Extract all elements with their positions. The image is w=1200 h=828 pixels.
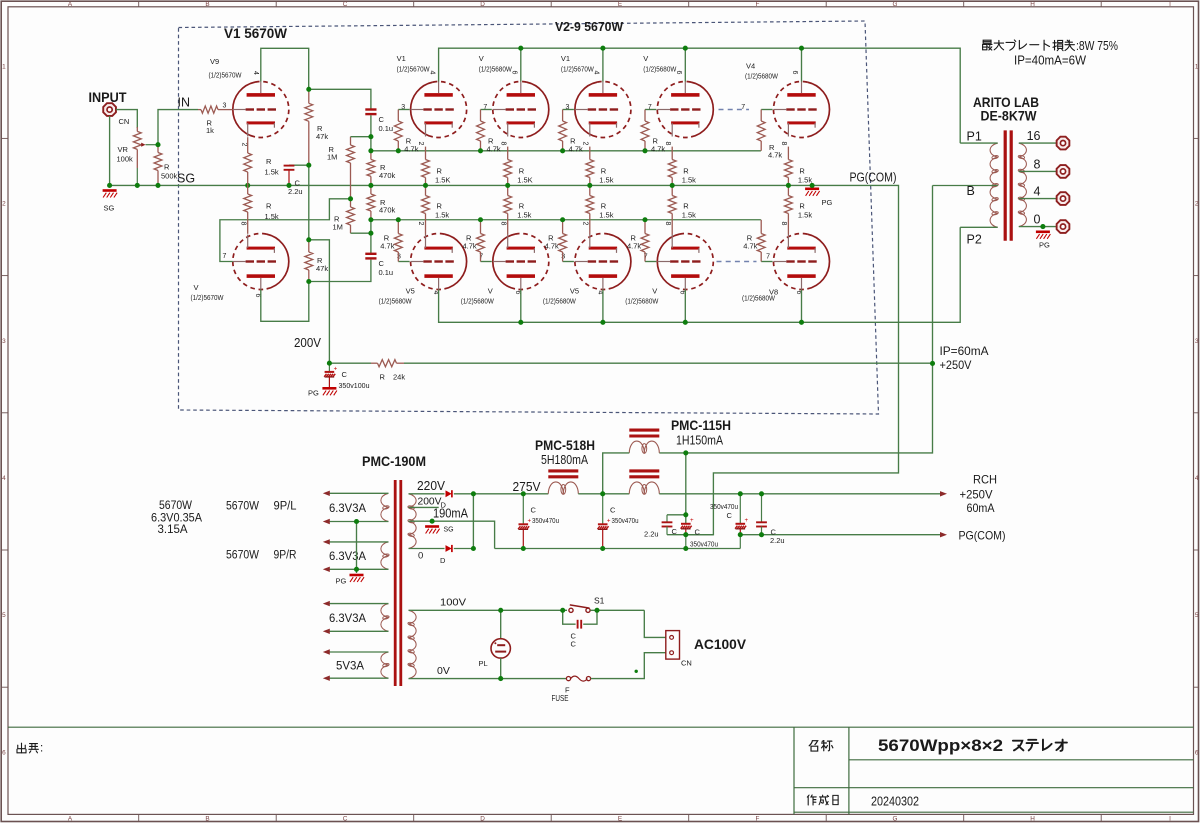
resistor R 1M upper (350, 137, 352, 145)
winding 6.3V3A #3 (381, 604, 389, 618)
svg-text:4.7k: 4.7k (627, 242, 641, 251)
svg-text:100k: 100k (117, 155, 134, 164)
wire PG(COM) RCH out (740, 534, 940, 536)
svg-text:4.7k: 4.7k (569, 145, 583, 154)
svg-text:V1: V1 (397, 54, 406, 63)
wire grid stub col5 low (761, 261, 772, 263)
svg-text:+250V: +250V (960, 488, 993, 502)
svg-text:47k: 47k (316, 264, 328, 273)
wire cap lower to plate node (309, 260, 371, 282)
tube V1 upper col1 (411, 82, 467, 138)
wire 200V feed (309, 240, 330, 363)
wire CN to SG ground (109, 116, 111, 185)
svg-text:IP=40mA=6W: IP=40mA=6W (1014, 54, 1086, 68)
terminal 8 (1057, 165, 1070, 178)
svg-text:SG: SG (104, 204, 115, 213)
transformer OPT primary winding (990, 143, 998, 157)
resistor R 1.5k cathode col5 low (787, 185, 789, 195)
wire rail to RCH (659, 493, 940, 495)
wire plate lead up x=685.3 (684, 48, 686, 81)
svg-text:1.5k: 1.5k (265, 212, 279, 221)
svg-text:(1/2)5680W: (1/2)5680W (479, 65, 513, 74)
svg-text:8: 8 (780, 222, 787, 226)
stray dot mains (635, 670, 638, 673)
svg-text:1.5k: 1.5k (682, 211, 696, 220)
svg-text:(1/2)5680W: (1/2)5680W (543, 297, 577, 306)
svg-text:4: 4 (593, 71, 600, 75)
svg-text:4.7k: 4.7k (743, 242, 757, 251)
svg-text:2: 2 (240, 143, 247, 147)
resistor R 1.5k cathode col2 low (507, 185, 509, 195)
ellipsis dashes lower row (717, 261, 757, 263)
svg-text:1: 1 (2, 63, 6, 70)
wire grid stub col1 up (398, 109, 409, 111)
title block label 作成日 (807, 795, 809, 797)
svg-text:5670W: 5670W (226, 550, 259, 562)
svg-text:B: B (205, 1, 209, 8)
svg-text:4: 4 (1195, 475, 1199, 482)
tube V9 lower half (1/2)5670W (233, 234, 289, 290)
wire CN to VR (116, 110, 137, 128)
svg-text:DE-8K7W: DE-8K7W (981, 108, 1038, 124)
wire grid stub col3 up (563, 109, 574, 111)
svg-text:R: R (266, 202, 272, 211)
resistor R 4.7k grid col4 low (644, 220, 646, 234)
svg-text:6: 6 (791, 71, 798, 75)
svg-text:1.5k: 1.5k (265, 168, 279, 177)
svg-text:0.1u: 0.1u (379, 124, 394, 133)
wire grid stub col2 low (481, 261, 492, 263)
svg-text:20240302: 20240302 (871, 795, 919, 809)
svg-text:350v470u: 350v470u (532, 518, 559, 525)
svg-text:2.2u: 2.2u (644, 530, 659, 539)
svg-text:V: V (488, 287, 493, 296)
svg-text:1.5k: 1.5k (435, 211, 449, 220)
svg-text:2: 2 (582, 222, 589, 226)
svg-text:+: + (690, 517, 694, 524)
wire plate lead up x=520.8 (520, 48, 522, 81)
svg-text:A: A (68, 816, 73, 823)
svg-text::8W 75%: :8W 75% (1076, 39, 1118, 53)
svg-text:D: D (480, 1, 485, 8)
resistor R 4.7k grid col2 low (480, 220, 482, 234)
svg-text:470k: 470k (379, 206, 396, 215)
ground PG heater (350, 574, 364, 577)
svg-text:I: I (1169, 816, 1171, 823)
winding 5V3A #4 (381, 652, 389, 665)
svg-text:2: 2 (417, 222, 424, 226)
svg-text:C: C (342, 370, 348, 379)
tube V8 lower col5 (774, 234, 830, 290)
svg-text:(1/2)5670W: (1/2)5670W (209, 71, 243, 80)
resistor R 470k upper (370, 151, 372, 160)
resistor R 1.5K cathode col3 up (589, 147, 591, 160)
arrow 6.3V3A top (323, 601, 330, 606)
svg-text:C: C (343, 816, 348, 823)
winding 6.3V3A #1 (381, 493, 389, 507)
wire V9 plate to rail (261, 48, 309, 89)
arrow 6.3V3A top (323, 491, 330, 496)
wire ground bus psu (495, 548, 741, 550)
wire CT tap (409, 521, 495, 548)
wire B+ rail (454, 493, 549, 495)
svg-text:B: B (967, 184, 975, 198)
svg-text:SG: SG (444, 527, 454, 534)
capacitor C 350v100u (328, 363, 330, 371)
svg-text:6: 6 (675, 71, 682, 75)
tube V lower col2 (493, 234, 549, 290)
choke PMC-518H (548, 469, 578, 472)
svg-text:1M: 1M (333, 223, 343, 232)
arrow 6.3V3A bottom (323, 519, 330, 524)
resistor R 4.7k grid col3 low (562, 220, 564, 234)
svg-text:4.7k: 4.7k (545, 242, 559, 251)
svg-text:8: 8 (664, 222, 671, 226)
switch S1 (569, 608, 573, 612)
resistor R 4.7k grid col1 low (397, 220, 399, 234)
svg-text:G: G (893, 816, 898, 823)
svg-text:R: R (601, 202, 607, 211)
wire plate lead down x=520.8 (520, 290, 522, 323)
svg-text:+: + (528, 518, 532, 525)
wire switch right (590, 609, 644, 611)
svg-text:7: 7 (479, 253, 483, 260)
svg-text:V2-9 5670W: V2-9 5670W (555, 19, 624, 34)
wire plate bus bottom to P2 (439, 227, 961, 322)
wire P2 (960, 226, 998, 228)
connector CN mains (666, 631, 680, 660)
wire B (933, 185, 998, 187)
svg-text:I: I (1169, 1, 1171, 8)
svg-text:V5: V5 (570, 287, 579, 296)
svg-text:F: F (756, 816, 760, 823)
wire secondary tap 16 (1019, 142, 1057, 144)
wire lower drive bus (371, 219, 761, 221)
svg-text:P1: P1 (967, 130, 982, 144)
svg-text:6: 6 (511, 71, 518, 75)
winding primary 100V (409, 610, 417, 624)
svg-text:3: 3 (2, 338, 6, 345)
svg-text:0.1u: 0.1u (379, 268, 394, 277)
resistor R 1k (198, 109, 201, 111)
title block label 名称 (809, 741, 812, 746)
resistor R 1.5K cathode col4 up (671, 147, 673, 160)
svg-text:4.7k: 4.7k (404, 145, 418, 154)
svg-text:5V3A: 5V3A (336, 659, 364, 673)
arrow 6.3V3A bottom (323, 629, 330, 634)
diode D 0V (446, 545, 452, 552)
svg-text:R: R (601, 167, 607, 176)
wire rectifier join (454, 494, 474, 549)
svg-text:PMC-190M: PMC-190M (362, 454, 426, 469)
svg-text:H: H (1030, 1, 1035, 8)
wire plate lead down x=602.9 (602, 290, 604, 323)
svg-text:CN: CN (681, 659, 692, 668)
svg-text:275V: 275V (513, 480, 542, 494)
resistor R 4.7k grid col2 up (480, 110, 482, 122)
wire plate bus top to P1 (439, 48, 961, 143)
resistor R 1.5k V9 lower (247, 185, 249, 194)
wire R1M bottom link (351, 232, 371, 234)
svg-text:8: 8 (240, 222, 247, 226)
resistor R 4.7k grid col1 up (397, 110, 399, 122)
resistor R 4.7k grid col3 up (562, 110, 564, 122)
wire 100V (409, 609, 568, 611)
svg-text:C: C (343, 1, 348, 8)
svg-text:1.5k: 1.5k (599, 211, 613, 220)
svg-text:0: 0 (418, 551, 423, 562)
svg-text:100V: 100V (440, 597, 466, 609)
svg-text:4: 4 (1034, 185, 1041, 199)
wire grid stub col1 low (398, 261, 409, 263)
svg-text:6: 6 (2, 749, 6, 756)
svg-text:(1/2)5680W: (1/2)5680W (461, 297, 495, 306)
svg-text:(1/2)5680W: (1/2)5680W (379, 297, 413, 306)
svg-text:PG: PG (336, 577, 347, 586)
source label 出典: (21, 743, 23, 753)
svg-text:16: 16 (1027, 129, 1041, 143)
capacitor C 0.1u lower (365, 253, 376, 255)
svg-text:350v470u: 350v470u (612, 518, 639, 525)
svg-text:AC100V: AC100V (694, 637, 746, 652)
wire 220V tap (409, 493, 445, 495)
svg-text:2: 2 (1195, 201, 1199, 208)
wire snubber bracket (563, 610, 576, 624)
ground PG 200V (322, 387, 336, 390)
wire grid stub col2 up (481, 109, 492, 111)
svg-text:R: R (437, 202, 443, 211)
svg-text:4: 4 (2, 475, 6, 482)
capacitor C snubber (577, 620, 579, 629)
svg-text:G: G (893, 1, 898, 8)
svg-text:(1/2)5670W: (1/2)5670W (561, 65, 595, 74)
wire rail mid (578, 493, 629, 495)
wire upper drive bus (371, 150, 761, 152)
capacitor C 350v470u #1 (522, 494, 524, 524)
svg-text:7: 7 (766, 253, 770, 260)
capacitor C 0.1u upper (365, 108, 376, 110)
terminal 0 (1057, 220, 1070, 233)
svg-text:C: C (610, 506, 616, 515)
svg-text:47k: 47k (316, 132, 328, 141)
svg-text:H: H (1030, 816, 1035, 823)
ground PG OPT (1036, 231, 1050, 234)
choke PMC-115H upper winding (629, 429, 659, 432)
wire 115H upper input (603, 453, 630, 494)
svg-text:C: C (379, 259, 385, 268)
arrow PG(COM) (940, 532, 947, 537)
svg-text:1.5k: 1.5k (798, 211, 812, 220)
arrow 5V3A bottom (323, 676, 330, 681)
wire 24k to B+ (404, 362, 933, 364)
svg-text:3: 3 (561, 253, 565, 260)
svg-text:1.5k: 1.5k (682, 176, 696, 185)
svg-text:60mA: 60mA (967, 501, 995, 515)
svg-text:PL: PL (479, 659, 488, 668)
svg-text:R: R (380, 373, 386, 382)
svg-text:24k: 24k (393, 373, 405, 382)
svg-text:F: F (756, 1, 760, 8)
svg-text:C: C (695, 528, 701, 537)
svg-text:PMC-518H: PMC-518H (535, 438, 595, 453)
wire plate lead down x=685.3 (684, 290, 686, 323)
svg-text:2: 2 (2, 201, 6, 208)
svg-text:5H180mA: 5H180mA (541, 453, 589, 467)
choke PMC-115H lower winding (629, 469, 659, 472)
svg-text:5670W: 5670W (159, 500, 192, 512)
svg-text:8: 8 (780, 142, 787, 146)
dashed stage boundary box (179, 21, 879, 414)
ground SG psu (425, 525, 439, 528)
svg-text:8: 8 (1034, 157, 1041, 171)
svg-text:PG: PG (1039, 241, 1050, 250)
svg-text:PMC-115H: PMC-115H (671, 418, 731, 433)
svg-text:4.7k: 4.7k (487, 145, 501, 154)
svg-text:0: 0 (1034, 213, 1041, 227)
svg-text:1H150mA: 1H150mA (676, 434, 724, 448)
winding 6.3V3A #2 (381, 542, 389, 556)
svg-text:D: D (480, 816, 485, 823)
svg-text:4.7k: 4.7k (768, 151, 782, 160)
svg-text:6: 6 (1195, 749, 1199, 756)
resistor R 4.7k grid col4 up (644, 110, 646, 122)
resistor R 1.5k cathode col1 low (425, 185, 427, 195)
svg-text:V: V (652, 287, 657, 296)
tube V upper col2 (493, 82, 549, 138)
svg-text:V: V (194, 283, 199, 292)
svg-text:1: 1 (1195, 63, 1199, 70)
svg-text:PG: PG (308, 389, 319, 398)
resistor R 4.7k grid col5 up (760, 110, 762, 122)
wire R1M top link (351, 136, 371, 138)
tube V1 upper col3 (575, 82, 631, 138)
svg-text:+: + (334, 365, 338, 372)
svg-text:V: V (643, 54, 648, 63)
svg-text:2.2u: 2.2u (770, 536, 785, 545)
wire divider upper (370, 115, 372, 151)
diode D 220V (446, 490, 452, 497)
svg-text:4: 4 (428, 71, 435, 75)
svg-text:6.3V3A: 6.3V3A (329, 549, 366, 563)
wire IN net (158, 110, 198, 145)
svg-text:B: B (205, 816, 209, 823)
arrow 5V3A top (323, 649, 330, 654)
svg-text:350v470u: 350v470u (710, 504, 738, 511)
resistor R 1.5k cathode col4 low (671, 185, 673, 195)
svg-text:220V: 220V (417, 479, 446, 493)
capacitor C 350v470u #2 (602, 494, 604, 524)
svg-text:6.3V3A: 6.3V3A (329, 501, 366, 515)
svg-text:P2: P2 (967, 233, 982, 247)
terminal 16 (1057, 137, 1070, 150)
capacitor C 2.2u (284, 165, 295, 167)
arrow 6.3V3A bottom (323, 567, 330, 572)
terminal 4 (1057, 192, 1070, 205)
wire grid stub col4 low (645, 261, 656, 263)
svg-text:7: 7 (223, 253, 227, 260)
wire plate lead down x=801.5 (801, 290, 803, 323)
wire secondary tap 4 (1019, 198, 1057, 200)
svg-text:3: 3 (223, 103, 227, 110)
title block table (793, 727, 795, 814)
svg-text:3: 3 (397, 253, 401, 260)
svg-text:2.2u: 2.2u (288, 187, 303, 196)
svg-text:RCH: RCH (973, 473, 997, 487)
svg-text:C: C (531, 506, 537, 515)
capacitor C 350v470u #4 (739, 494, 741, 524)
svg-text:V: V (479, 54, 484, 63)
wire 0V tap (409, 548, 445, 550)
svg-text:1.5K: 1.5K (435, 176, 450, 185)
svg-text:E: E (618, 816, 622, 823)
svg-text:C: C (571, 640, 577, 649)
wire B+ feed down (659, 186, 932, 453)
svg-text:R: R (437, 167, 443, 176)
svg-text:1M: 1M (327, 153, 337, 162)
svg-text:V5: V5 (406, 287, 415, 296)
wire 200V rail mid (308, 165, 310, 240)
wire 200V stub (409, 506, 439, 508)
svg-text:470k: 470k (379, 171, 396, 180)
svg-text:V9: V9 (210, 57, 219, 66)
wire fuse to CN (591, 653, 666, 679)
svg-text:FUSE: FUSE (552, 694, 569, 703)
tube V5 lower col3 (575, 234, 631, 290)
svg-text:500k: 500k (161, 172, 178, 181)
wire grid stub col5 up (761, 109, 772, 111)
winding HV secondary (409, 494, 417, 508)
svg-text:4.7k: 4.7k (463, 242, 477, 251)
title block separator line (8, 726, 1194, 728)
svg-text:R: R (799, 167, 805, 176)
svg-text:8: 8 (499, 222, 506, 226)
svg-text:V1: V1 (561, 54, 570, 63)
connector CN input (103, 103, 116, 116)
svg-text:(1/2)5680W: (1/2)5680W (643, 65, 677, 74)
wire 200V output line (329, 362, 371, 364)
arrow RCH +250V (940, 491, 947, 496)
potentiometer VR 100k (136, 127, 138, 131)
wire secondary tap 0 (1019, 226, 1057, 228)
svg-text:1.5k: 1.5k (798, 176, 812, 185)
svg-text:1.5K: 1.5K (517, 176, 532, 185)
svg-text:R: R (164, 163, 170, 172)
note 最大プレート損失:8W 75% (983, 40, 991, 43)
svg-text:IP=60mA: IP=60mA (940, 344, 989, 358)
fuse F (566, 677, 570, 681)
svg-text:PG(COM): PG(COM) (850, 171, 897, 185)
svg-text:6.3V3A: 6.3V3A (329, 611, 366, 625)
svg-text:4: 4 (252, 71, 259, 75)
svg-text:6: 6 (254, 294, 261, 298)
svg-text:(1/2)5670W: (1/2)5670W (191, 293, 225, 302)
svg-text:C: C (727, 511, 733, 520)
svg-text:350v100u: 350v100u (339, 381, 370, 390)
ground PG bus (805, 188, 819, 191)
svg-text:+: + (607, 518, 611, 525)
junction dots (155, 142, 160, 147)
svg-text:PG: PG (822, 198, 833, 207)
svg-text:(1/2)5680W: (1/2)5680W (742, 294, 776, 303)
wire divider lower (370, 220, 372, 254)
svg-text:6.3V0.35A: 6.3V0.35A (151, 512, 202, 524)
wire grid stub col3 low (563, 261, 574, 263)
tube V4 upper col5 (774, 82, 830, 138)
svg-text:+: + (745, 517, 749, 524)
svg-text:C: C (379, 115, 385, 124)
capacitor C 350v470u #3 (681, 523, 691, 525)
ellipsis dashes upper row (719, 109, 750, 111)
